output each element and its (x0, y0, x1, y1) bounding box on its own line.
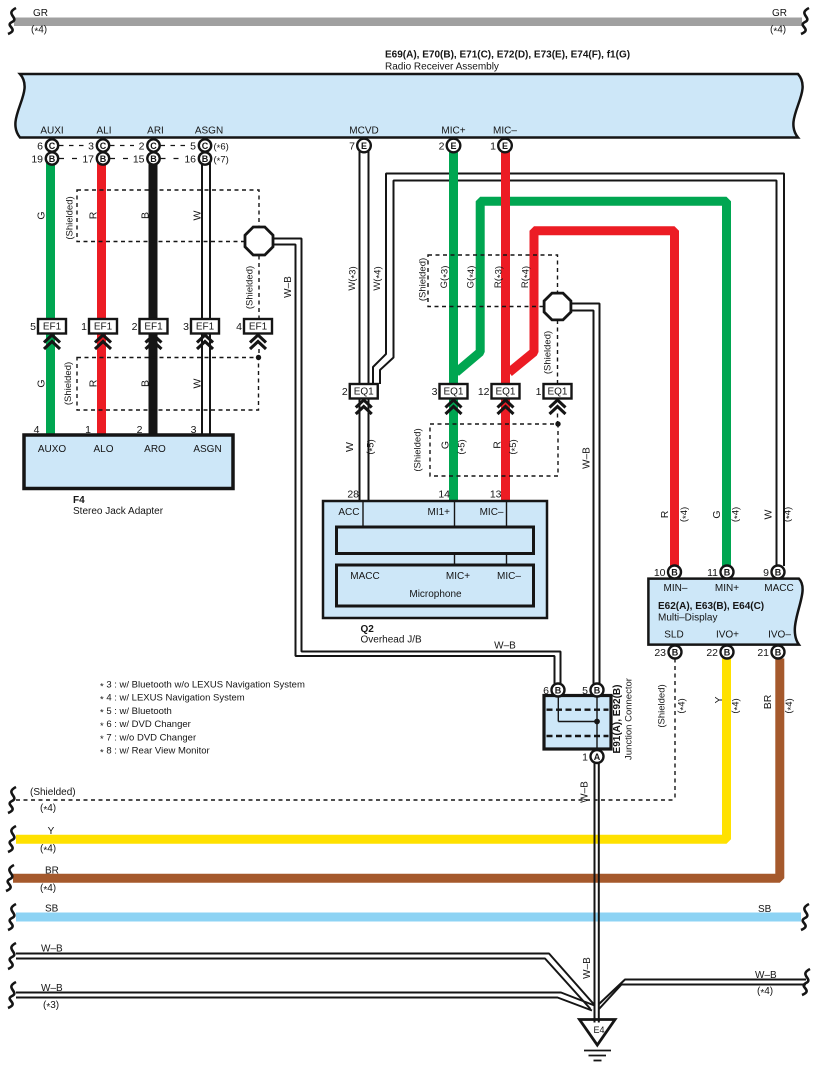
svg-text:W(*4): W(*4) (372, 266, 385, 290)
svg-text:R: R (659, 510, 671, 518)
svg-text:AUXO: AUXO (38, 444, 67, 455)
svg-text:B: B (202, 154, 209, 164)
svg-text:* 3 : w/ Bluetooth w/o LEXUS N: * 3 : w/ Bluetooth w/o LEXUS Navigation … (100, 680, 305, 693)
svg-text:(Shielded): (Shielded) (418, 258, 429, 301)
svg-text:EQ1: EQ1 (547, 387, 567, 398)
svg-text:R: R (492, 441, 504, 449)
svg-text:AUXI: AUXI (40, 126, 63, 137)
svg-text:(*4): (*4) (782, 507, 795, 522)
svg-text:B: B (594, 685, 601, 695)
svg-text:W: W (344, 442, 356, 452)
svg-text:E: E (502, 141, 508, 151)
svg-text:3: 3 (191, 424, 197, 436)
svg-text:G(*3): G(*3) (439, 266, 452, 289)
svg-text:(*4): (*4) (40, 844, 56, 857)
svg-text:G: G (711, 510, 723, 518)
svg-text:10: 10 (654, 567, 666, 579)
svg-text:6: 6 (543, 685, 549, 697)
svg-text:12: 12 (478, 386, 490, 398)
svg-text:E4: E4 (593, 1025, 604, 1035)
svg-text:3: 3 (183, 321, 189, 333)
svg-text:ASGN: ASGN (195, 126, 223, 137)
svg-text:(*4): (*4) (676, 698, 689, 713)
svg-text:E: E (450, 141, 456, 151)
svg-text:11: 11 (707, 567, 718, 579)
svg-text:G(*4): G(*4) (466, 266, 479, 289)
svg-text:B: B (140, 380, 152, 387)
svg-text:2: 2 (132, 321, 138, 333)
svg-text:(*4): (*4) (770, 25, 786, 38)
svg-text:Multi–Display: Multi–Display (658, 613, 717, 624)
svg-text:* 5 : w/ Bluetooth: * 5 : w/ Bluetooth (100, 706, 172, 719)
svg-text:2: 2 (139, 140, 145, 152)
svg-text:G: G (36, 379, 48, 387)
svg-text:1: 1 (582, 751, 588, 763)
svg-text:(*7): (*7) (214, 154, 229, 167)
svg-text:B: B (724, 647, 731, 657)
svg-text:1: 1 (536, 386, 542, 398)
svg-text:F4: F4 (73, 495, 85, 506)
svg-text:R(*4): R(*4) (520, 266, 533, 288)
svg-text:(*3): (*3) (43, 1000, 59, 1013)
svg-text:BR: BR (45, 866, 59, 877)
svg-text:SB: SB (758, 904, 772, 915)
svg-text:EF1: EF1 (196, 322, 215, 333)
svg-text:1: 1 (81, 321, 87, 333)
svg-text:(*4): (*4) (784, 698, 797, 713)
svg-text:1: 1 (85, 424, 91, 436)
svg-text:ARI: ARI (147, 126, 164, 137)
svg-text:21: 21 (757, 647, 769, 659)
svg-text:(*4): (*4) (757, 986, 773, 999)
svg-text:MIN–: MIN– (664, 583, 688, 594)
svg-text:Y: Y (48, 826, 55, 837)
svg-text:2: 2 (342, 386, 348, 398)
svg-text:(*4): (*4) (40, 883, 56, 896)
svg-text:6: 6 (37, 140, 43, 152)
svg-text:15: 15 (133, 153, 145, 165)
svg-text:E69(A), E70(B), E71(C), E72(D): E69(A), E70(B), E71(C), E72(D), E73(E), … (385, 49, 630, 60)
svg-text:MIC–: MIC– (480, 507, 504, 518)
svg-text:W–B: W–B (41, 983, 63, 994)
svg-text:2: 2 (137, 424, 143, 436)
svg-text:(*4): (*4) (730, 507, 743, 522)
svg-text:W: W (192, 210, 204, 220)
svg-text:ARO: ARO (144, 444, 166, 455)
svg-text:EF1: EF1 (249, 322, 268, 333)
svg-text:Microphone: Microphone (409, 589, 462, 600)
svg-text:EF1: EF1 (144, 322, 163, 333)
svg-text:5: 5 (582, 685, 588, 697)
svg-text:W: W (763, 509, 775, 519)
svg-text:(Shielded): (Shielded) (245, 266, 256, 309)
svg-text:13: 13 (490, 489, 502, 501)
svg-text:(*5): (*5) (508, 439, 521, 454)
svg-text:W: W (192, 378, 204, 388)
svg-text:(Shielded): (Shielded) (30, 787, 76, 798)
svg-text:E91(A), E92(B): E91(A), E92(B) (612, 685, 623, 754)
svg-text:B: B (555, 685, 562, 695)
svg-text:W–B: W–B (283, 276, 294, 298)
svg-text:MIC+: MIC+ (446, 571, 470, 582)
svg-text:GR: GR (772, 8, 787, 19)
svg-text:B: B (100, 154, 107, 164)
svg-text:(Shielded): (Shielded) (543, 331, 554, 374)
svg-text:17: 17 (82, 153, 94, 165)
svg-text:EQ1: EQ1 (354, 387, 374, 398)
svg-text:EQ1: EQ1 (495, 387, 515, 398)
svg-text:Overhead J/B: Overhead J/B (361, 635, 422, 646)
svg-text:Radio Receiver Assembly: Radio Receiver Assembly (385, 61, 499, 72)
svg-text:ACC: ACC (338, 507, 359, 518)
svg-text:19: 19 (31, 153, 43, 165)
svg-text:Stereo Jack Adapter: Stereo Jack Adapter (73, 506, 164, 517)
svg-text:MCVD: MCVD (349, 126, 378, 137)
svg-text:MIC+: MIC+ (441, 126, 465, 137)
svg-text:7: 7 (349, 140, 355, 152)
svg-text:EF1: EF1 (43, 322, 62, 333)
svg-text:W–B: W–B (494, 641, 516, 652)
svg-text:A: A (594, 752, 601, 762)
svg-text:R: R (88, 211, 100, 219)
svg-text:3: 3 (432, 386, 438, 398)
svg-text:MIN+: MIN+ (715, 583, 739, 594)
svg-text:E: E (361, 141, 367, 151)
svg-text:5: 5 (190, 140, 196, 152)
svg-text:SLD: SLD (664, 630, 683, 641)
svg-text:(*5): (*5) (365, 439, 378, 454)
svg-text:(*5): (*5) (456, 439, 469, 454)
svg-text:* 7 : w/o DVD Changer: * 7 : w/o DVD Changer (100, 732, 196, 745)
svg-text:ALI: ALI (96, 126, 111, 137)
svg-text:W–B: W–B (755, 970, 777, 981)
svg-text:(Shielded): (Shielded) (63, 362, 74, 405)
svg-text:E62(A), E63(B), E64(C): E62(A), E63(B), E64(C) (658, 601, 764, 612)
svg-text:2: 2 (439, 140, 445, 152)
svg-text:MIC–: MIC– (493, 126, 517, 137)
svg-text:MI1+: MI1+ (427, 507, 450, 518)
svg-text:SB: SB (45, 904, 59, 915)
svg-text:(Shielded): (Shielded) (413, 428, 424, 471)
svg-text:5: 5 (30, 321, 36, 333)
svg-text:B: B (775, 647, 782, 657)
svg-text:9: 9 (763, 567, 769, 579)
svg-text:(Shielded): (Shielded) (657, 684, 668, 727)
svg-text:(*4): (*4) (730, 698, 743, 713)
svg-text:IVO–: IVO– (768, 630, 791, 641)
svg-text:4: 4 (236, 321, 242, 333)
svg-text:W–B: W–B (582, 957, 593, 979)
svg-text:GR: GR (33, 8, 48, 19)
svg-text:(*4): (*4) (31, 25, 47, 38)
svg-text:W–B: W–B (582, 447, 593, 469)
svg-text:R: R (88, 379, 100, 387)
svg-text:ALO: ALO (93, 444, 113, 455)
svg-text:3: 3 (88, 140, 94, 152)
svg-text:(*4): (*4) (679, 507, 692, 522)
svg-text:ASGN: ASGN (193, 444, 221, 455)
svg-text:22: 22 (706, 647, 718, 659)
svg-text:B: B (49, 154, 56, 164)
svg-text:* 4 : w/ LEXUS Navigation Syst: * 4 : w/ LEXUS Navigation System (100, 693, 245, 706)
svg-text:B: B (150, 154, 157, 164)
svg-text:W–B: W–B (41, 944, 63, 955)
svg-text:Q2: Q2 (361, 624, 375, 635)
svg-text:1: 1 (490, 140, 496, 152)
svg-text:* 6 : w/ DVD Changer: * 6 : w/ DVD Changer (100, 719, 191, 732)
svg-text:C: C (49, 141, 56, 151)
svg-text:4: 4 (34, 424, 40, 436)
svg-text:MIC–: MIC– (497, 571, 521, 582)
svg-text:IVO+: IVO+ (716, 630, 739, 641)
svg-text:MACC: MACC (350, 571, 379, 582)
svg-text:16: 16 (184, 153, 196, 165)
svg-text:B: B (671, 567, 678, 577)
svg-text:W–B: W–B (580, 781, 591, 803)
svg-text:23: 23 (654, 647, 666, 659)
svg-text:C: C (202, 141, 209, 151)
svg-text:14: 14 (438, 489, 450, 501)
svg-text:W(*3): W(*3) (347, 266, 360, 290)
svg-text:28: 28 (347, 489, 359, 501)
svg-text:C: C (100, 141, 107, 151)
svg-text:* 8 : w/ Rear View Monitor: * 8 : w/ Rear View Monitor (100, 746, 210, 759)
svg-text:C: C (150, 141, 157, 151)
svg-text:(Shielded): (Shielded) (65, 196, 76, 239)
svg-text:Y: Y (713, 696, 725, 703)
svg-text:B: B (140, 212, 152, 219)
svg-text:MACC: MACC (764, 583, 793, 594)
svg-text:Junction Connector: Junction Connector (624, 678, 635, 760)
svg-text:(*6): (*6) (214, 141, 229, 154)
svg-text:BR: BR (762, 694, 774, 709)
svg-text:G: G (440, 441, 452, 449)
svg-text:B: B (724, 567, 731, 577)
svg-text:B: B (775, 567, 782, 577)
svg-text:G: G (36, 211, 48, 219)
svg-text:R(*3): R(*3) (493, 266, 506, 288)
svg-text:(*4): (*4) (40, 803, 56, 816)
svg-text:B: B (672, 647, 679, 657)
svg-text:EF1: EF1 (94, 322, 113, 333)
svg-text:EQ1: EQ1 (443, 387, 463, 398)
